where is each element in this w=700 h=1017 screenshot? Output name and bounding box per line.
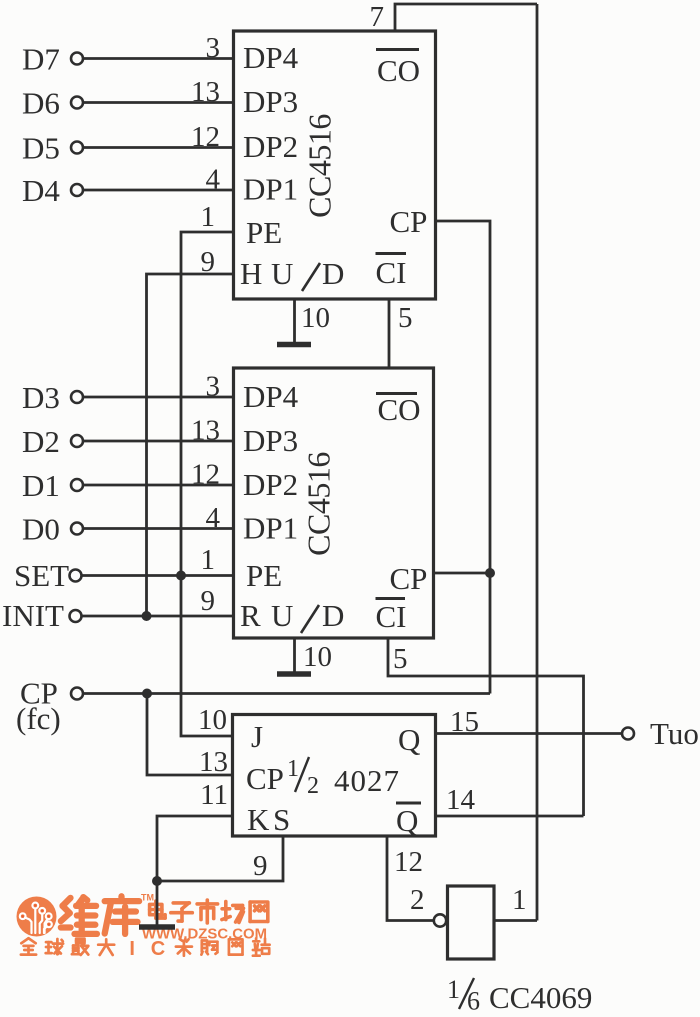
svg-text:Q: Q bbox=[398, 722, 420, 757]
svg-text:CO: CO bbox=[378, 392, 421, 427]
wire U2 CI pin5 to FF Q-bar bbox=[388, 638, 584, 816]
svg-text:CI: CI bbox=[376, 599, 407, 634]
svg-text:U: U bbox=[271, 598, 293, 633]
IC U2 CC4516 lower counter body bbox=[234, 368, 434, 638]
svg-text:4: 4 bbox=[206, 164, 221, 196]
wire K/S node to ground bbox=[156, 881, 159, 925]
svg-text:2: 2 bbox=[307, 773, 319, 799]
svg-text:4027: 4027 bbox=[334, 763, 400, 798]
svg-text:7: 7 bbox=[370, 1, 385, 33]
wire U1 CO pin7 to node bbox=[395, 4, 537, 31]
logo circuit sprout bbox=[20, 903, 52, 933]
svg-text:CC4069: CC4069 bbox=[489, 980, 592, 1015]
wire CP(fc) bus bbox=[83, 692, 490, 695]
svg-text:11: 11 bbox=[200, 779, 228, 811]
svg-text:D: D bbox=[322, 256, 344, 291]
wire U3 Q-bar pin14 bbox=[436, 815, 584, 818]
svg-text:D0: D0 bbox=[22, 512, 60, 547]
wire U1 CI pin5 to U2 CO pin7 bbox=[388, 299, 391, 368]
svg-text:CI: CI bbox=[376, 255, 407, 290]
wire U1 CP to CP node bbox=[436, 221, 491, 694]
svg-text:I: I bbox=[129, 938, 135, 960]
ground GND2 (U2 pin10) bbox=[277, 671, 311, 677]
wire U2 CP to CP node bbox=[434, 572, 491, 575]
svg-text:PE: PE bbox=[246, 558, 282, 593]
wire D6 to U1 bbox=[83, 101, 233, 104]
svg-text:13: 13 bbox=[199, 746, 228, 778]
svg-text:13: 13 bbox=[191, 415, 220, 447]
svg-text:DP4: DP4 bbox=[243, 379, 299, 414]
svg-text:2: 2 bbox=[410, 884, 425, 916]
svg-text:4: 4 bbox=[206, 502, 221, 534]
wire U3 Q pin15 to output bbox=[436, 732, 623, 735]
svg-text:D1: D1 bbox=[22, 468, 60, 503]
svg-text:J: J bbox=[251, 719, 263, 754]
svg-text:DP2: DP2 bbox=[243, 129, 298, 164]
svg-text:DP1: DP1 bbox=[243, 511, 298, 546]
svg-text:1: 1 bbox=[512, 884, 527, 916]
wire D4 to U1 bbox=[83, 189, 233, 192]
svg-text:6: 6 bbox=[467, 987, 480, 1016]
wire D5 to U1 bbox=[83, 146, 233, 149]
wire SET line to FF J pin10 bbox=[181, 576, 232, 737]
svg-text:Tuo: Tuo bbox=[650, 716, 699, 751]
svg-text:D: D bbox=[322, 598, 344, 633]
U2 pin label CI (overline) bbox=[376, 597, 406, 600]
svg-text:C: C bbox=[151, 938, 165, 960]
svg-text:DP3: DP3 bbox=[243, 423, 298, 458]
svg-text:D2: D2 bbox=[22, 424, 60, 459]
svg-text:12: 12 bbox=[191, 459, 220, 491]
svg-text:D5: D5 bbox=[22, 131, 60, 166]
svg-text:U: U bbox=[271, 256, 293, 291]
IC U1 CC4516 upper counter body bbox=[234, 31, 436, 299]
wire D3 to U2 bbox=[83, 396, 233, 399]
ground GND1 (U1 pin10) bbox=[277, 342, 311, 348]
wire U2 pin10 stem bbox=[293, 638, 296, 672]
svg-text:DP2: DP2 bbox=[243, 467, 298, 502]
wire U3 K pin11 bbox=[157, 816, 232, 881]
wire U1 pin10 stem bbox=[293, 299, 296, 342]
svg-text:D7: D7 bbox=[22, 42, 60, 77]
svg-text:H: H bbox=[240, 256, 262, 291]
svg-text:14: 14 bbox=[446, 784, 476, 816]
svg-text:10: 10 bbox=[198, 704, 227, 736]
svg-text:CP: CP bbox=[246, 761, 284, 796]
U3 pin label Q-bar (overline) bbox=[396, 802, 421, 805]
wire D7 to U1 bbox=[83, 57, 233, 60]
output terminal Tuo bbox=[622, 728, 634, 740]
svg-text:13: 13 bbox=[191, 76, 220, 108]
svg-text:DP1: DP1 bbox=[243, 172, 298, 207]
svg-text:SET: SET bbox=[14, 558, 69, 593]
svg-text:Q: Q bbox=[396, 803, 418, 838]
junction CP(fc)/pin13 node bbox=[142, 689, 152, 699]
svg-text:3: 3 bbox=[206, 371, 221, 403]
wire U3 pin12 to inverter output bbox=[387, 836, 433, 921]
svg-text:PE: PE bbox=[246, 215, 282, 250]
svg-text:D3: D3 bbox=[22, 380, 60, 415]
inverter U4 bubble bbox=[434, 914, 446, 926]
svg-text:9: 9 bbox=[253, 850, 268, 882]
inverter U4 1/6 CC4069 body bbox=[448, 886, 495, 959]
wire D2 to U2 bbox=[83, 440, 233, 443]
junction INIT/UD node bbox=[142, 611, 152, 621]
wire U1 U/D pin9 bbox=[147, 274, 234, 616]
junction K/S node bbox=[152, 876, 162, 886]
svg-text:12: 12 bbox=[191, 121, 220, 153]
svg-text:CC4516: CC4516 bbox=[302, 114, 338, 218]
junction CP node bbox=[485, 568, 495, 578]
watermark slogan 全球最大IC采购网站 bbox=[21, 938, 270, 960]
svg-text:5: 5 bbox=[393, 643, 408, 675]
svg-text:(fc): (fc) bbox=[16, 701, 61, 736]
svg-text:9: 9 bbox=[201, 585, 216, 617]
U2 pin label CO (overline) bbox=[376, 392, 417, 395]
svg-text:10: 10 bbox=[301, 302, 330, 334]
svg-text:DP3: DP3 bbox=[243, 84, 298, 119]
wire U1 PE pin1 bbox=[181, 232, 233, 576]
svg-text:DP4: DP4 bbox=[243, 40, 299, 75]
svg-text:1: 1 bbox=[201, 544, 216, 576]
wire D0 to U2 bbox=[83, 527, 233, 530]
junction SET/PE node bbox=[176, 571, 186, 581]
svg-text:12: 12 bbox=[394, 846, 423, 878]
wire U3 S pin9 bbox=[157, 836, 283, 881]
wire U4 input pin1 from carry line bbox=[494, 919, 537, 922]
wire D1 to U2 bbox=[83, 484, 233, 487]
svg-text:K: K bbox=[247, 802, 270, 837]
svg-text:5: 5 bbox=[398, 302, 413, 334]
wire INIT to U2 U/D bbox=[82, 615, 234, 618]
wire carry line (CO) vertical bbox=[536, 4, 539, 921]
svg-text:CC4516: CC4516 bbox=[301, 452, 337, 556]
svg-text:TM: TM bbox=[141, 893, 154, 903]
U1 pin label CO (overline) bbox=[376, 48, 419, 51]
svg-text:D6: D6 bbox=[22, 86, 60, 121]
svg-text:10: 10 bbox=[303, 641, 332, 673]
watermark text 电子市场网 bbox=[150, 900, 268, 923]
wire CP(fc) to FF CP pin13 bbox=[147, 694, 232, 776]
svg-text:INIT: INIT bbox=[2, 598, 64, 633]
svg-text:1: 1 bbox=[287, 756, 299, 782]
IC U3 1/2 4027 flip-flop body bbox=[233, 715, 436, 837]
svg-text:CO: CO bbox=[377, 53, 420, 88]
svg-text:R: R bbox=[240, 598, 261, 633]
svg-text:CP: CP bbox=[390, 561, 428, 596]
wire SET to U2 PE bbox=[82, 574, 234, 577]
svg-text:3: 3 bbox=[206, 32, 221, 64]
svg-text:CP: CP bbox=[390, 204, 428, 239]
svg-text:D4: D4 bbox=[22, 173, 60, 208]
svg-text:S: S bbox=[273, 802, 290, 837]
watermark text 维库 bbox=[61, 896, 139, 934]
watermark logo circle (dzsc.com) bbox=[17, 897, 57, 937]
svg-text:1: 1 bbox=[447, 975, 460, 1004]
U1 pin label CI (overline) bbox=[376, 252, 407, 255]
svg-text:1: 1 bbox=[201, 201, 216, 233]
ground GND3 (U3 K/S) bbox=[139, 924, 175, 930]
